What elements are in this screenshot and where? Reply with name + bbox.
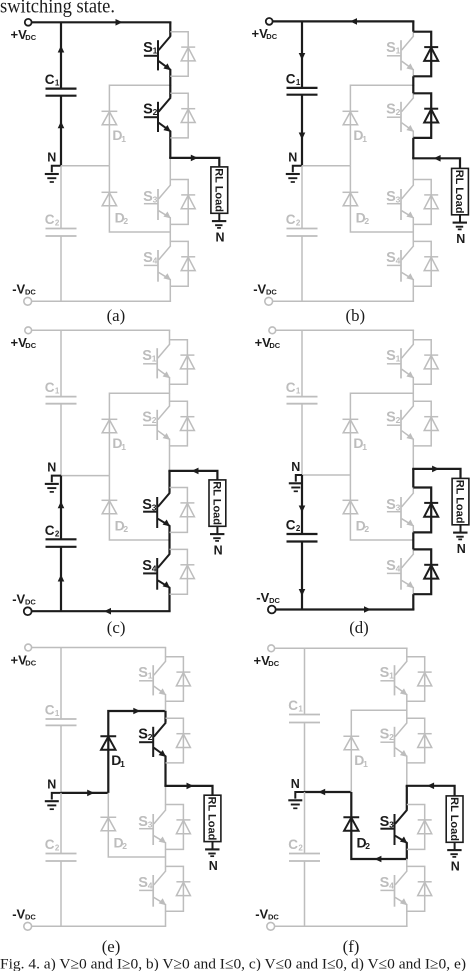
subfig (b): wire node N to C2 (301, 166, 303, 229)
subfig (d): node N label (291, 460, 300, 474)
subfig (d): antiparallel diode of S2 (413, 401, 438, 446)
svg-text:2: 2 (123, 524, 128, 534)
svg-text:S: S (138, 665, 148, 681)
subfig (b): RL Load (452, 168, 469, 214)
svg-text:S: S (143, 189, 153, 205)
subfig (d): antiparallel diode of S3 (413, 488, 438, 533)
svg-text:N: N (457, 542, 466, 556)
subfig (d): capacitor C1 (286, 380, 318, 404)
subfig (f): capacitor C1 (288, 698, 320, 723)
subfig (a): wire C2 to -VDC rail (60, 236, 62, 301)
svg-text:-V: -V (255, 907, 268, 922)
subfig (e): capacitor C1 (45, 703, 77, 726)
subfig (b): -VDC terminal (253, 282, 277, 306)
subfig (a): +VDC terminal (11, 19, 37, 42)
subfig (f): output wire to load (406, 783, 455, 796)
subfig (b): clamping diode D2 branch wire (350, 166, 413, 232)
svg-text:DC: DC (269, 341, 280, 350)
subfig (f): caption (f) (343, 937, 360, 956)
svg-text:C: C (286, 380, 296, 395)
svg-text:-V: -V (12, 592, 25, 607)
svg-text:DC: DC (25, 33, 36, 42)
svg-text:RL Load: RL Load (448, 797, 460, 841)
svg-text:Fig. 4. a) V≥0 and I≥0, b) V≥0: Fig. 4. a) V≥0 and I≥0, b) V≥0 and I≤0, … (0, 956, 466, 971)
subfig (c): antiparallel diode of S2 (170, 401, 195, 446)
subfig (f): -VDC terminal (255, 907, 279, 931)
subfig (e): wire C1 to node N (60, 725, 62, 793)
subfig (c): RL Load (209, 480, 226, 526)
subfig (f): wire C1 to node N (304, 723, 306, 793)
svg-text:2: 2 (152, 415, 157, 425)
subfig (d): clamping diode D2 branch wire (350, 475, 413, 540)
subfig (f): ground at node N (288, 792, 304, 808)
svg-text:1: 1 (55, 709, 60, 718)
subfig (d): output wire to load (412, 466, 460, 479)
subfig (f): bottom rail wire (275, 925, 408, 927)
svg-text:1: 1 (121, 134, 126, 144)
svg-text:1: 1 (152, 354, 157, 364)
subfig (a): output wire to load (169, 155, 219, 167)
subfig (d): load neutral label N (457, 542, 466, 556)
svg-text:1: 1 (120, 759, 125, 769)
subfig (b): switch S1 (IGBT) (386, 32, 414, 77)
subfig (a): antiparallel diode of S1 (170, 32, 195, 77)
svg-text:2: 2 (153, 107, 158, 117)
subfig (b): wire C1 to node N (299, 53, 306, 166)
subfig (d): bottom rail wire (276, 606, 415, 613)
svg-text:S: S (142, 497, 152, 513)
subfig (c): capacitor C1 (45, 380, 77, 404)
subfig (d): wire node N to clamping diodes (302, 474, 350, 476)
subfig (e): ground at node N (45, 793, 61, 809)
subfig (f): antiparallel diode of S1 (407, 657, 432, 702)
subfig (b): top rail wire (273, 18, 415, 25)
svg-text:-V: -V (12, 282, 25, 297)
subfig (f): node N label (291, 777, 300, 791)
subfig (b): phase-leg main wire segments (412, 21, 414, 301)
svg-text:S: S (380, 665, 390, 681)
subfig (f): RL Load (446, 796, 463, 842)
subfig (f): wire node N to clamping diodes (305, 789, 352, 796)
subfig (a): capacitor C1 (45, 72, 77, 96)
svg-text:N: N (214, 544, 223, 558)
subfig (a): capacitor C2 (45, 212, 77, 236)
svg-text:(f): (f) (343, 937, 360, 956)
subfig (e): +VDC terminal (11, 644, 37, 667)
subfig (f): load neutral ground (447, 842, 461, 857)
subfig (b): wire node N to clamping diodes (302, 165, 350, 167)
subfig (d): clamping diode D2 (343, 500, 370, 534)
subfig (e): caption (e) (102, 937, 121, 956)
subfig (e): clamping diode D2 branch wire (108, 793, 165, 857)
svg-text:S: S (142, 410, 152, 426)
svg-text:2: 2 (122, 841, 127, 851)
subfig (e): clamping diode D1 branch wire (108, 708, 165, 793)
subfig (b): caption (b) (346, 306, 366, 325)
subfig (f): clamping diode D2 (343, 817, 370, 851)
svg-text:3: 3 (396, 502, 401, 512)
svg-text:S: S (386, 558, 396, 574)
subfig (a): ground at node N (45, 166, 61, 182)
svg-text:(d): (d) (349, 618, 369, 637)
subfig (d): top rail wire (276, 329, 414, 331)
svg-text:1: 1 (396, 46, 401, 56)
subfig (d): wire +VDC rail to C1 (301, 330, 303, 396)
subfig (a): antiparallel diode of S4 (170, 241, 195, 286)
subfig (d): switch S4 (IGBT) (386, 549, 414, 594)
subfig (d): caption (d) (349, 618, 369, 637)
svg-text:1: 1 (396, 354, 401, 364)
svg-text:(b): (b) (346, 306, 366, 325)
subfig (a): wire +VDC rail to C1 (60, 22, 62, 88)
subfig (c): clamping diode D2 branch wire (109, 476, 169, 540)
svg-text:N: N (47, 151, 56, 165)
subfig (d): clamping diode D1 (343, 419, 368, 452)
subfig (c): wire node N to clamping diodes (61, 475, 109, 477)
svg-text:RL Load: RL Load (212, 168, 224, 212)
subfig (f): +VDC terminal (254, 645, 280, 668)
svg-text:C: C (288, 837, 298, 852)
subfig (c): antiparallel diode of S4 (170, 549, 195, 594)
svg-text:C: C (286, 71, 296, 86)
svg-text:DC: DC (266, 32, 277, 41)
svg-text:2: 2 (298, 844, 303, 853)
subfig (a): clamping diode D1 (102, 111, 127, 144)
svg-text:2: 2 (148, 732, 153, 742)
subfig (f): clamping diode D2 branch wire (351, 792, 407, 862)
subfig (a): antiparallel diode of S2 (170, 93, 195, 138)
subfig (e): wire node N to clamping diodes (61, 790, 108, 797)
subfig (a): RL Load (211, 167, 228, 213)
svg-text:1: 1 (121, 442, 126, 452)
subfig (e): top rail wire (32, 647, 167, 649)
subfig (d): ground at node N (289, 475, 303, 491)
subfig (e): -VDC terminal (12, 907, 36, 931)
svg-text:S: S (386, 410, 396, 426)
svg-text:2: 2 (396, 415, 401, 425)
subfig (a): clamping diode D2 (102, 192, 129, 226)
svg-text:3: 3 (396, 194, 401, 204)
svg-text:2: 2 (396, 107, 401, 117)
svg-text:2: 2 (389, 732, 394, 742)
subfig (d): wire node N to C2 (299, 475, 306, 534)
svg-text:4: 4 (153, 255, 158, 265)
subfig (a): load neutral label N (216, 231, 225, 245)
subfig (e): load neutral label N (209, 859, 218, 873)
svg-text:switching state.: switching state. (0, 0, 115, 17)
svg-text:C: C (286, 212, 296, 227)
svg-text:DC: DC (269, 596, 280, 605)
subfig (b): antiparallel diode of S4 (413, 241, 438, 286)
svg-text:N: N (288, 151, 297, 165)
subfig (e): switch S4 (IGBT) (138, 866, 166, 911)
svg-text:N: N (456, 232, 465, 246)
svg-text:C: C (288, 698, 298, 713)
subfig (e): output wire to load (164, 783, 212, 796)
subfig (f): antiparallel diode of S4 (407, 866, 432, 911)
subfig (f): capacitor C2 (288, 837, 320, 861)
subfig (e): node N label (47, 778, 56, 792)
svg-text:C: C (286, 518, 296, 533)
svg-text:N: N (291, 460, 300, 474)
page top text fragment (0, 0, 115, 17)
subfig (c): node N label (47, 460, 56, 474)
subfig (d): switch S2 (IGBT) (386, 401, 414, 446)
svg-text:1: 1 (298, 705, 303, 714)
subfig (b): switch S4 (IGBT) (386, 241, 414, 286)
subfig (c): caption (c) (107, 618, 126, 637)
subfig (b): capacitor C2 (286, 212, 318, 236)
subfig (f): switch S3 (IGBT) (380, 804, 408, 849)
svg-text:C: C (45, 703, 55, 718)
svg-text:S: S (143, 102, 153, 118)
subfig (e): clamping diode D2 (100, 817, 127, 851)
subfig (c): wire C2 to -VDC rail (58, 547, 65, 611)
subfig (d): switch S3 (IGBT) (386, 487, 414, 532)
svg-text:S: S (138, 727, 148, 743)
subfig (c): top rail wire (32, 329, 171, 331)
svg-text:N: N (216, 231, 225, 245)
svg-text:1: 1 (148, 671, 153, 681)
svg-text:3: 3 (389, 819, 394, 829)
svg-text:2: 2 (296, 524, 301, 533)
svg-text:S: S (143, 250, 153, 266)
subfig (b): wire +VDC rail to C1 (301, 21, 303, 88)
subfig (c): phase-leg main wire segments (169, 330, 171, 611)
subfig (e): clamping diode D1 (100, 736, 125, 769)
subfig (a): caption (a) (107, 306, 126, 325)
svg-text:DC: DC (25, 288, 36, 297)
svg-text:2: 2 (364, 524, 369, 534)
svg-text:1: 1 (362, 442, 367, 452)
subfig (a): switch S2 (IGBT) (143, 93, 171, 138)
svg-text:N: N (451, 860, 460, 874)
subfig (a): load neutral ground (212, 213, 226, 228)
subfig (b): wire C2 to -VDC rail (301, 236, 303, 301)
svg-text:1: 1 (55, 387, 60, 396)
svg-text:DC: DC (25, 913, 36, 922)
subfig (c): switch S4 (IGBT) (142, 549, 170, 594)
svg-text:DC: DC (266, 288, 277, 297)
subfig (e): antiparallel diode of S2 (166, 718, 191, 763)
subfig (a): -VDC terminal (12, 282, 36, 306)
svg-text:N: N (209, 859, 218, 873)
subfig (c): switch S1 (IGBT) (142, 340, 170, 385)
svg-text:1: 1 (153, 46, 158, 56)
svg-text:(c): (c) (107, 618, 126, 637)
subfig (f): clamping diode D1 branch wire (351, 710, 407, 792)
subfig (c): capacitor C2 (45, 523, 77, 547)
svg-text:S: S (386, 250, 396, 266)
svg-text:RL Load: RL Load (454, 480, 466, 524)
subfig (c): wire +VDC rail to C1 (60, 330, 62, 396)
subfig (a): bottom rail wire (32, 300, 172, 302)
svg-text:S: S (380, 814, 390, 830)
subfig (c): load neutral ground (210, 526, 224, 541)
subfig (c): ground at node N (45, 476, 61, 492)
svg-text:1: 1 (296, 78, 301, 87)
subfig (f): antiparallel diode of S3 (407, 805, 432, 850)
subfig (f): clamping diode D1 (343, 736, 368, 769)
svg-text:-V: -V (256, 590, 269, 605)
subfig (b): clamping diode D1 (343, 111, 368, 144)
subfig (d): RL Load (452, 478, 469, 524)
subfig (a): phase-leg main wire segments (169, 22, 171, 301)
subfig (e): switch S2 (IGBT) (138, 718, 166, 763)
subfig (b): antiparallel diode of S2 (413, 93, 438, 138)
svg-text:3: 3 (152, 502, 157, 512)
svg-text:S: S (380, 875, 390, 891)
svg-text:DC: DC (25, 658, 36, 667)
svg-text:C: C (45, 380, 55, 395)
svg-text:S: S (386, 102, 396, 118)
svg-text:S: S (138, 875, 148, 891)
subfig (c): antiparallel diode of S3 (170, 488, 195, 533)
subfig (f): wire +VDC rail to C1 (304, 648, 306, 714)
svg-text:DC: DC (25, 598, 36, 607)
subfig (b): switch S2 (IGBT) (386, 93, 414, 138)
svg-text:2: 2 (296, 219, 301, 228)
svg-text:1: 1 (296, 387, 301, 396)
subfig (e): wire C2 to -VDC rail (60, 861, 62, 926)
svg-text:DC: DC (25, 341, 36, 350)
subfig (b): ground at node N (286, 166, 302, 182)
svg-text:N: N (47, 778, 56, 792)
subfig (c): output wire to load (168, 468, 217, 480)
subfig (d): load neutral ground (453, 525, 467, 540)
svg-text:S: S (386, 40, 396, 56)
subfig (c): wire node N to C2 (58, 476, 65, 540)
svg-text:4: 4 (389, 880, 394, 890)
subfig (e): wire +VDC rail to C1 (60, 648, 62, 720)
subfig (e): capacitor C2 (45, 837, 77, 861)
svg-text:S: S (386, 189, 396, 205)
svg-text:S: S (386, 497, 396, 513)
subfig (f): phase-leg main wire segments (406, 648, 408, 926)
subfig (b): antiparallel diode of S3 (413, 180, 438, 225)
svg-text:2: 2 (55, 844, 60, 853)
subfig (e): switch S1 (IGBT) (138, 657, 166, 702)
subfig (a): top rail wire (32, 19, 172, 26)
subfig (c): clamping diode D1 branch wire (109, 393, 169, 475)
svg-text:4: 4 (152, 563, 157, 573)
subfig (a): switch S4 (IGBT) (143, 241, 171, 286)
svg-text:2: 2 (55, 529, 60, 538)
subfig (e): antiparallel diode of S1 (166, 657, 191, 702)
svg-text:S: S (380, 727, 390, 743)
subfig (a): node N label (47, 151, 56, 165)
svg-text:2: 2 (365, 841, 370, 851)
svg-text:S: S (142, 558, 152, 574)
subfig (d): clamping diode D1 branch wire (350, 393, 413, 475)
svg-text:DC: DC (268, 913, 279, 922)
subfig (b): antiparallel diode of S1 (413, 32, 438, 77)
svg-text:-V: -V (12, 907, 25, 922)
subfig (f): wire C2 to -VDC rail (304, 861, 306, 926)
subfig (c): load neutral label N (214, 544, 223, 558)
subfig (b): clamping diode D2 (343, 192, 370, 226)
subfig (e): RL Load (204, 795, 221, 841)
subfig (d): -VDC terminal (256, 590, 280, 614)
subfig (b): bottom rail wire (273, 300, 415, 302)
subfig (b): node N label (288, 151, 297, 165)
subfig (c): +VDC terminal (11, 327, 37, 350)
subfig (a): wire C1 to node N (58, 46, 65, 166)
svg-text:RL Load: RL Load (206, 797, 218, 841)
subfig (a): clamping diode D2 branch wire (109, 166, 170, 232)
subfig (b): load neutral label N (456, 232, 465, 246)
subfig (a): wire node N to clamping diodes (61, 165, 109, 167)
subfig (d): antiparallel diode of S4 (413, 549, 438, 594)
subfig (e): bottom rail wire (32, 925, 167, 927)
svg-text:(a): (a) (107, 306, 126, 325)
subfig (b): output wire to load (412, 155, 460, 168)
subfig (d): phase-leg main wire segments (412, 330, 414, 610)
subfig (b): load neutral ground (453, 215, 467, 230)
subfig (e): switch S3 (IGBT) (138, 804, 166, 849)
svg-text:2: 2 (123, 216, 128, 226)
svg-text:S: S (138, 814, 148, 830)
subfig (c): antiparallel diode of S1 (170, 340, 195, 385)
subfig (a): antiparallel diode of S3 (170, 180, 195, 225)
svg-text:C: C (45, 523, 55, 538)
svg-text:-V: -V (253, 282, 266, 297)
subfig (d): +VDC terminal (255, 327, 281, 350)
subfig (b): +VDC terminal (252, 18, 278, 41)
svg-text:4: 4 (396, 255, 401, 265)
subfig (d): antiparallel diode of S1 (413, 340, 438, 385)
subfig (e): antiparallel diode of S3 (166, 805, 191, 850)
svg-text:1: 1 (55, 79, 60, 88)
subfig (c): switch S3 (IGBT) (142, 487, 170, 532)
svg-text:C: C (45, 212, 55, 227)
subfig (c): wire C1 to node N (60, 404, 62, 476)
subfig (f): wire node N to C2 (304, 792, 306, 854)
svg-text:C: C (45, 72, 55, 87)
subfig (b): switch S3 (IGBT) (386, 179, 414, 224)
subfig (c): switch S2 (IGBT) (142, 401, 170, 446)
subfig (c): clamping diode D1 (102, 419, 127, 452)
subfig (a): clamping diode D1 branch wire (109, 85, 170, 166)
svg-text:1: 1 (363, 759, 368, 769)
svg-text:3: 3 (153, 194, 158, 204)
svg-text:4: 4 (396, 563, 401, 573)
subfig (f): switch S4 (IGBT) (380, 866, 408, 911)
svg-text:3: 3 (148, 819, 153, 829)
subfig (e): antiparallel diode of S4 (166, 866, 191, 911)
subfig (c): -VDC terminal (12, 592, 36, 616)
subfig (a): wire node N to C2 (60, 166, 62, 229)
subfig (e): phase-leg main wire segments (165, 647, 167, 926)
figure caption text (cropped) (0, 956, 466, 971)
svg-text:RL Load: RL Load (211, 481, 223, 525)
subfig (f): load neutral label N (451, 860, 460, 874)
svg-text:1: 1 (389, 671, 394, 681)
subfig (b): capacitor C1 (286, 71, 318, 94)
svg-text:2: 2 (55, 219, 60, 228)
svg-text:C: C (45, 837, 55, 852)
svg-text:S: S (386, 348, 396, 364)
svg-text:N: N (291, 777, 300, 791)
subfig (c): clamping diode D2 (102, 500, 129, 534)
svg-text:S: S (142, 348, 152, 364)
subfig (f): top rail wire (275, 647, 408, 649)
subfig (d): switch S1 (IGBT) (386, 340, 414, 385)
svg-text:1: 1 (362, 134, 367, 144)
subfig (c): bottom rail wire (32, 608, 171, 615)
svg-text:N: N (47, 460, 56, 474)
subfig (f): switch S2 (IGBT) (380, 718, 408, 763)
